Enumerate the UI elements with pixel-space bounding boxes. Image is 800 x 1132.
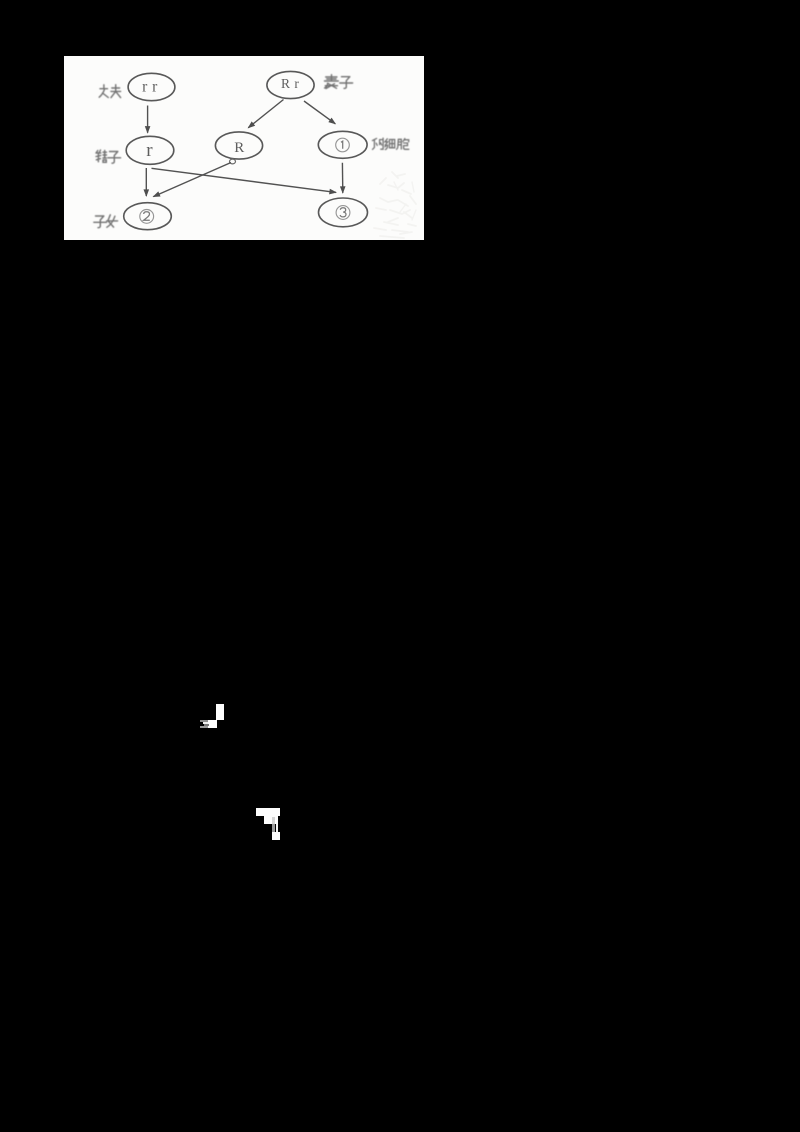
label 精子 (sperm) (96, 150, 121, 163)
arrow r -> child ③ (long) (152, 168, 337, 192)
scanned diagram panel (64, 56, 424, 240)
arrow Rr -> egg cell (304, 101, 335, 124)
arrow rr -> r (147, 106, 149, 133)
ellipse child ③ (319, 198, 368, 227)
arrow egg ① -> child ③ (341, 163, 343, 193)
arrow Rr -> R (248, 100, 283, 128)
ellipse egg cell ① (318, 131, 367, 158)
label 卵细胞 (egg cell) (372, 138, 408, 150)
arrow r -> child ② (145, 168, 147, 196)
stray loop artifact (230, 159, 236, 164)
ellipse child ② (124, 203, 172, 230)
ellipse Rr (wife genotype) (267, 71, 314, 98)
svg-text:r: r (146, 140, 153, 161)
svg-text:R r: R r (281, 76, 299, 91)
label 妻子 (wife) (325, 75, 353, 89)
svg-text:r r: r r (142, 78, 158, 95)
ellipse r (sperm genotype) (126, 136, 174, 164)
faint scan texture (374, 172, 416, 238)
ellipse R (215, 132, 262, 159)
label 丈夫 (husband) (99, 85, 120, 98)
svg-text:R: R (234, 140, 244, 156)
white speck glyph fragment B (256, 808, 280, 816)
label 子女 (children) (94, 215, 118, 228)
white speck glyph fragment A (216, 704, 224, 720)
arrow R -> child ② (153, 163, 231, 197)
ellipse rr (husband genotype) (128, 73, 175, 100)
